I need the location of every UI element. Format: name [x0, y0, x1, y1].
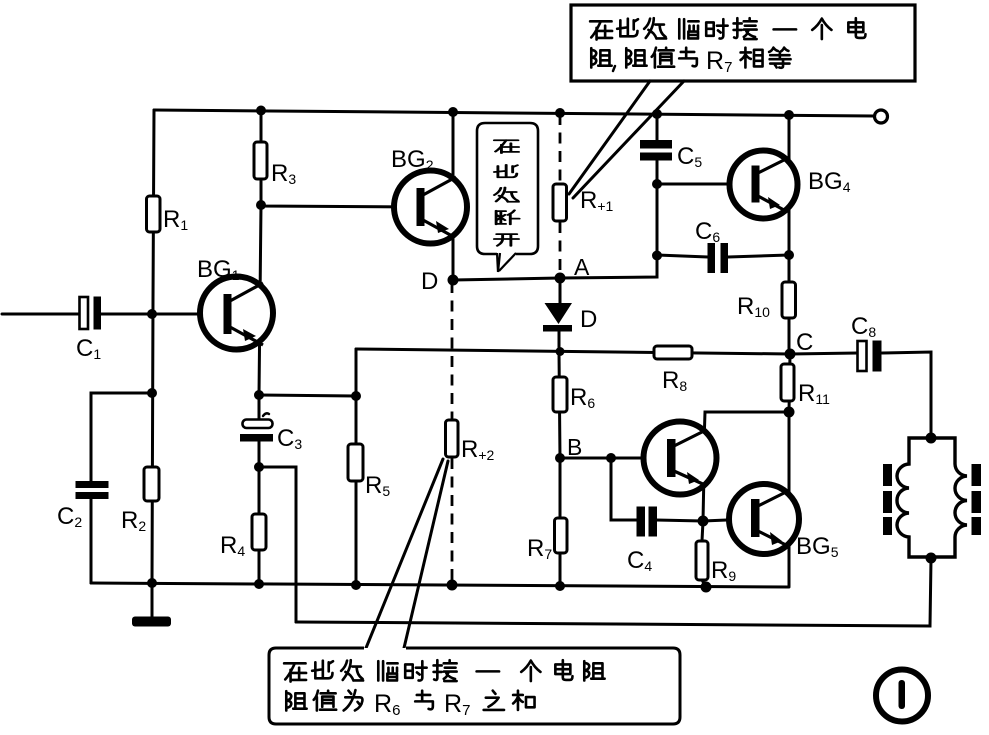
transistor BG3 [644, 422, 717, 495]
pointer lines from top box to R+1 [569, 81, 650, 194]
resistor R6 [553, 377, 567, 412]
capacitor C2 [76, 481, 109, 499]
svg-text:C2: C2 [57, 503, 82, 530]
output terminal circle [875, 110, 888, 123]
wire mid horizontal (R8 net) [356, 349, 790, 354]
capacitor C1 [80, 297, 102, 330]
svg-text:R1: R1 [163, 206, 188, 233]
junction coil top [926, 433, 937, 444]
node A [555, 273, 566, 284]
junction C6 left [652, 251, 662, 261]
junction ground rail / ground [147, 578, 157, 588]
wire BG4 collector-emitter vertical [788, 115, 791, 255]
svg-text:R6: R6 [570, 384, 595, 411]
wire C2 branch top [91, 393, 152, 483]
wire dashed break line at D [451, 282, 454, 585]
wire dashed line at A (R+1) [559, 114, 562, 277]
wire left vertical (R1/R2 branch) [152, 110, 154, 583]
node C [785, 349, 796, 360]
svg-text:C4: C4 [627, 547, 652, 574]
junction top rail / BG4 collector [784, 110, 794, 120]
wire lower feedback rail [296, 559, 931, 626]
wire BG3 emitter down [703, 472, 704, 521]
resistor R8 [654, 346, 692, 359]
wire C1 to BG1 base [101, 313, 224, 316]
transistor BG1 [200, 277, 273, 350]
svg-text:R2: R2 [121, 507, 146, 534]
svg-text:R4: R4 [220, 532, 245, 559]
junction top rail / R3 [256, 106, 266, 116]
resistor R+2 [446, 420, 459, 457]
wire R9 column [702, 521, 706, 587]
resistor R10 [782, 282, 796, 318]
junction ground rail / R9 [701, 582, 712, 593]
wire node C to C8 [790, 353, 858, 354]
junction diode cathode / R8 net [556, 347, 565, 356]
junction coil bottom [926, 553, 937, 564]
wire bottom ground rail [91, 583, 789, 587]
annotation box bottom (connect a resistor equal to R6+R7 here) [269, 648, 680, 724]
svg-text:BG4: BG4 [808, 168, 851, 195]
wire C6 link [657, 255, 789, 257]
svg-text:BG1: BG1 [197, 256, 240, 283]
resistor R4 [252, 514, 266, 550]
svg-text:D: D [421, 268, 438, 295]
resistor R5 [348, 444, 363, 481]
wire R10 R11 column [788, 255, 791, 354]
wire C8 to coil top [882, 352, 931, 438]
wire R3 branch / BG2 base feed [260, 110, 417, 207]
resistor R7 [555, 518, 568, 553]
junction ground rail / R4 [254, 579, 264, 589]
wire R5 column [355, 349, 358, 585]
wire diode branch [559, 278, 560, 352]
svg-text:C8: C8 [851, 313, 876, 340]
diode D [543, 303, 572, 332]
junction top rail / BG2 collector [448, 107, 458, 117]
junction C3 bottom / feedback [254, 462, 264, 472]
wire C3 bottom feedback branch [259, 467, 296, 622]
wire input lead to C1 [2, 313, 81, 316]
coil / output transformer [883, 438, 981, 557]
svg-text:BG2: BG2 [391, 146, 434, 173]
wire R11 to junction [789, 354, 790, 412]
svg-text:R3: R3 [271, 160, 296, 187]
junction C1 input / R1-R2 column [147, 309, 157, 319]
junction R3 / BG2 base feed [256, 200, 266, 210]
svg-text:R8: R8 [662, 367, 687, 394]
resistor R11 [781, 364, 794, 401]
resistor R3 [254, 142, 267, 179]
junction BG3 emitter / C4 / R9 / BG5 base [698, 516, 709, 527]
svg-text:C1: C1 [76, 335, 101, 362]
junction C6 right / BG4 emitter [784, 250, 794, 260]
wire top supply rail [154, 110, 874, 116]
wire BG5 collector-emitter vertical [788, 412, 791, 586]
wire C4 branch [611, 458, 703, 521]
svg-text:R+2: R+2 [461, 436, 495, 463]
pointer lines from bottom box to R+2 [366, 459, 443, 648]
capacitor C3 [240, 413, 273, 441]
svg-text:D: D [580, 306, 597, 333]
annotation box middle (break circuit here) [477, 123, 538, 272]
wire node D to node A to C6 column [453, 161, 657, 280]
svg-text:C6: C6 [695, 218, 720, 245]
wire R6 R7 column [559, 352, 560, 586]
junction R5 column / emitter wire [351, 391, 361, 401]
resistor R9 [696, 541, 708, 580]
annotation box top (connect a resistor equal to R7 here) [571, 5, 915, 81]
resistor R2 [144, 467, 159, 501]
svg-text:R7: R7 [527, 535, 552, 562]
junction C5 / BG4 base [652, 179, 662, 189]
resistor R+1 [553, 184, 567, 221]
capacitor C8 [858, 341, 882, 372]
wire BG4 base feed [657, 183, 736, 186]
wire BG1 collector-emitter vertical [259, 205, 261, 395]
svg-text:R5: R5 [365, 472, 390, 499]
svg-text:C3: C3 [277, 425, 302, 452]
wire C3/R4 column [258, 395, 261, 584]
junction top rail / R+1 dashed line [555, 108, 565, 118]
junction node B / C4 branch [606, 453, 616, 463]
ground [151, 583, 154, 618]
svg-text:R+1: R+1 [580, 187, 614, 214]
node D [448, 275, 459, 286]
wire C2 bottom [90, 498, 93, 583]
svg-text:C5: C5 [677, 143, 702, 170]
junction top rail / C5 [652, 109, 662, 119]
junction BG1 emitter [254, 390, 264, 400]
wire BG5 base feed [703, 519, 751, 521]
junction ground rail / R7 [555, 581, 565, 591]
svg-text:A: A [574, 254, 590, 280]
node B [555, 453, 565, 463]
svg-text:C: C [796, 329, 813, 356]
capacitor C6 [708, 243, 729, 273]
svg-text:R10: R10 [737, 293, 770, 320]
junction C2 branch [147, 388, 157, 398]
capacitor C5 [640, 140, 672, 161]
wire BG1 emitter to R5 column [259, 395, 356, 396]
wire C5 top [656, 114, 659, 141]
wire node B to BG3 base [560, 457, 668, 460]
junction ground rail / R5 [351, 580, 361, 590]
wire BG2 collector/emitter vertical [452, 112, 455, 280]
svg-text:BG5: BG5 [796, 533, 839, 560]
junction ground rail / dashed line [447, 580, 458, 591]
wire BG3 collector to R11 node [704, 412, 789, 444]
transistor BG5 [729, 484, 799, 554]
junction R11 / BG3 collector / BG5 collector [784, 407, 795, 418]
resistor R1 [147, 196, 161, 232]
capacitor C4 [637, 507, 658, 537]
svg-text:B: B [567, 434, 582, 460]
svg-text:R11: R11 [798, 380, 830, 407]
figure number mark [876, 670, 928, 722]
transistor BG4 [730, 151, 798, 219]
transistor BG2 [394, 171, 467, 244]
svg-text:R9: R9 [711, 557, 736, 584]
